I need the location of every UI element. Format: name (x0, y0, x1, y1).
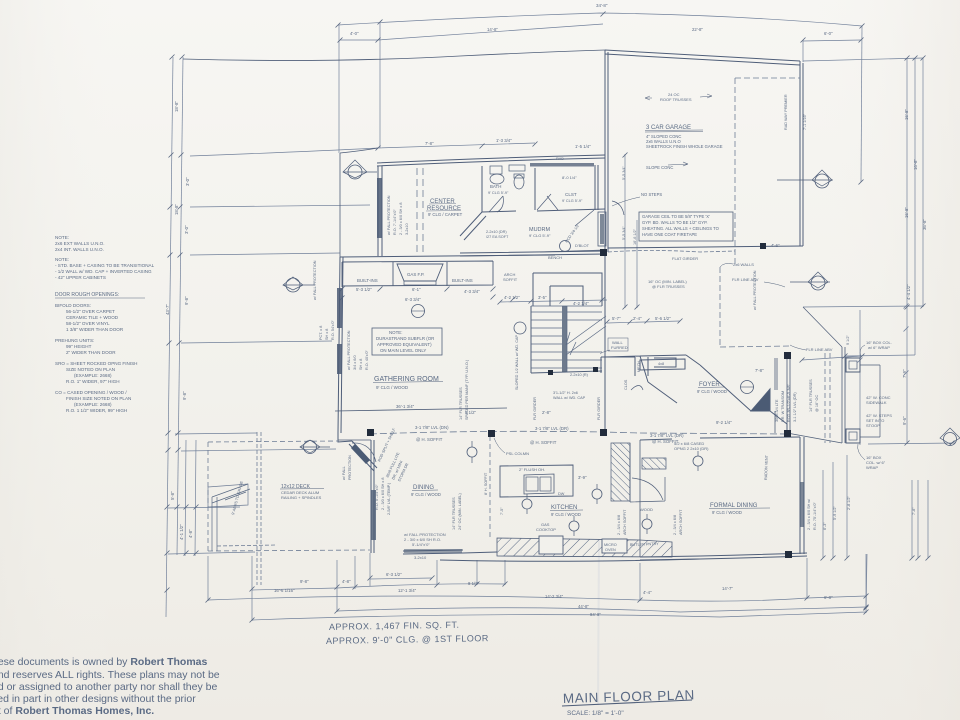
svg-text:4'-4 1/2": 4'-4 1/2" (906, 284, 911, 300)
svg-text:4'-6": 4'-6" (771, 243, 780, 248)
svg-text:R.O. 75'-1/4"x'0": R.O. 75'-1/4"x'0" (813, 502, 817, 530)
svg-text:BIFOLD DOORS:: BIFOLD DOORS: (55, 303, 91, 308)
svg-text:9'-2 1/4": 9'-2 1/4" (716, 420, 732, 425)
svg-text:CO = CASED OPENING / WOOD /: CO = CASED OPENING / WOOD / (55, 390, 127, 395)
svg-text:6'-8": 6'-8" (824, 595, 833, 600)
formal dining side dim verticals (823, 455, 847, 558)
svg-text:- 1/2 WALL w/ WD. CAP + INVERT: - 1/2 WALL w/ WD. CAP + INVERTED CASING (55, 269, 152, 274)
svg-text:5'-1/4"x'0": 5'-1/4"x'0" (412, 542, 430, 547)
left branch y=207 (190, 205, 370, 207)
svg-text:9' CLG / WOOD: 9' CLG / WOOD (697, 389, 727, 394)
extension line x=339 (338, 25, 340, 153)
svg-text:ARCH SOFFIT: ARCH SOFFIT (623, 509, 627, 535)
svg-text:6'-3": 6'-3" (823, 522, 827, 530)
title underline (562, 700, 692, 706)
svg-text:SH x 8: SH x 8 (359, 359, 363, 370)
svg-text:1 3/8" WIDER THAN DOOR: 1 3/8" WIDER THAN DOOR (66, 327, 124, 332)
left outer dimension line (166, 57, 173, 617)
svg-text:w/ FALL PROTECTION: w/ FALL PROTECTION (313, 260, 317, 300)
gathering lamp arrows (472, 441, 698, 536)
mech room walls (601, 357, 676, 376)
svg-text:18'-8": 18'-8" (174, 101, 179, 112)
svg-text:DW: DW (558, 492, 565, 496)
bottom-left extra dim verticals (185, 440, 196, 556)
svg-text:2" WIDER THAN DOOR: 2" WIDER THAN DOOR (66, 350, 116, 355)
foyer dim line y=322 (607, 321, 680, 323)
stair center rail dark strip (562, 306, 567, 372)
svg-text:9'-8": 9'-8" (184, 296, 189, 305)
foyer angled door wall (648, 355, 700, 403)
closet door swing (537, 194, 558, 210)
svg-text:2-5/8" LVL (TEMP.): 2-5/8" LVL (TEMP.) (387, 482, 391, 515)
svg-text:SHEETROCK FINISH WHOLE GARAGE: SHEETROCK FINISH WHOLE GARAGE (646, 144, 723, 149)
bath sink oval (490, 174, 504, 184)
left branch y=450 (181, 449, 336, 451)
svg-text:3-1 1/2" LVL (DR): 3-1 1/2" LVL (DR) (793, 392, 797, 422)
svg-text:3/4 x 6/0: 3/4 x 6/0 (353, 355, 357, 370)
svg-text:ARCH SOFFIT: ARCH SOFFIT (679, 509, 683, 535)
sink basin left (526, 477, 538, 491)
dining left exterior wall (371, 440, 374, 553)
floor-line-above dashed lower (720, 267, 790, 347)
porch edge lines right of foyer (842, 347, 845, 443)
stair up arrows diagonal (566, 316, 606, 355)
left wing top exterior wall (377, 155, 605, 166)
svg-text:2x6 EXT WALLS U.N.O.: 2x6 EXT WALLS U.N.O. (55, 241, 105, 246)
svg-text:14" FLR TRUSSES: 14" FLR TRUSSES (459, 387, 463, 420)
svg-text:6'-0": 6'-0" (824, 31, 833, 36)
svg-text:2'-8": 2'-8" (542, 410, 551, 415)
garage right wall extension up (802, 40, 804, 62)
svg-text:@ H. SOFFIT: @ H. SOFFIT (416, 437, 443, 442)
top sub dimension line 4'-0"/14'-8" (340, 24, 603, 40)
svg-text:w/ FALL PROTECTION: w/ FALL PROTECTION (753, 270, 757, 310)
svg-text:WOOD: WOOD (640, 507, 653, 512)
porch dim line y=358 (802, 356, 862, 360)
foyer top wall (605, 355, 686, 382)
svg-text:8 1/2": 8 1/2" (468, 581, 480, 586)
window formal dining right wall (800, 482, 804, 527)
svg-text:@ H. SOFFIT: @ H. SOFFIT (530, 440, 557, 445)
formal dining lamp (693, 456, 703, 466)
svg-text:9' CLG / WOOD: 9' CLG / WOOD (712, 510, 742, 515)
svg-text:BATH: BATH (490, 184, 501, 189)
svg-text:12'-1 3/4": 12'-1 3/4" (398, 588, 417, 593)
svg-text:DURASTRAND SUBFLR (OR: DURASTRAND SUBFLR (OR (376, 336, 434, 341)
window center resource left wall (377, 178, 382, 238)
svg-text:7'-9": 7'-9" (902, 369, 907, 378)
svg-text:14'-7": 14'-7" (722, 586, 733, 591)
formal dining top wall (640, 437, 800, 440)
gas fireplace trapezoid (397, 264, 443, 281)
extension from top wall to x=340 (340, 148, 378, 153)
svg-text:3'-5": 3'-5" (538, 295, 547, 300)
section marker below garage (790, 272, 830, 288)
svg-text:PREHUNG UNITS:: PREHUNG UNITS: (55, 338, 94, 343)
stair newels (548, 370, 553, 375)
svg-text:@ FLR TRUSSES: @ FLR TRUSSES (652, 284, 685, 289)
mud door diag (575, 210, 594, 226)
svg-text:FURRED: FURRED (611, 345, 628, 350)
svg-text:GYP. BD. WALLS TO BE 1/2" GYP: GYP. BD. WALLS TO BE 1/2" GYP. (642, 220, 708, 225)
svg-text:MECH: MECH (637, 361, 641, 372)
svg-text:3-1 7/8" LVL (DR): 3-1 7/8" LVL (DR) (650, 433, 684, 438)
svg-text:3'1-1/2" H. 2x6: 3'1-1/2" H. 2x6 (553, 391, 578, 395)
deck posts (212, 497, 217, 551)
stoop steps (860, 365, 880, 437)
kitchen bottom exterior wall (440, 552, 700, 561)
svg-text:24" OC (MIN. LABEL): 24" OC (MIN. LABEL) (458, 492, 462, 530)
extension line garage corner to right dims (803, 58, 923, 61)
section marker built-ins circle (412, 305, 425, 318)
section marker right edge (940, 428, 960, 444)
deck dashed lower rail (217, 545, 277, 546)
svg-text:R.O. 1 1/2" WIDER, 99" HIGH: R.O. 1 1/2" WIDER, 99" HIGH (66, 408, 127, 413)
svg-text:- 42" UPPER CABINETS: - 42" UPPER CABINETS (55, 275, 106, 280)
svg-text:RAD WAY PREMIER: RAD WAY PREMIER (784, 94, 788, 130)
svg-text:SRO = SHEET ROCKED OPNG FINISH: SRO = SHEET ROCKED OPNG FINISH (55, 361, 138, 366)
svg-text:R.O. 5'-1/4"x'0": R.O. 5'-1/4"x'0" (375, 484, 379, 510)
garage top wall (605, 50, 800, 65)
kitchen lamp circle 1 (467, 447, 477, 457)
svg-text:SLOPED 1/2 WALL w/ WD. CAP: SLOPED 1/2 WALL w/ WD. CAP (515, 335, 519, 390)
svg-text:3'-0": 3'-0" (184, 225, 189, 234)
svg-text:14" FLR TRUSSES: 14" FLR TRUSSES (809, 379, 813, 412)
svg-text:CLOS: CLOS (624, 379, 628, 390)
junction mud corner (601, 249, 607, 255)
svg-text:14'-8": 14'-8" (487, 27, 498, 32)
svg-text:RHD: RHD (556, 157, 564, 161)
bay corner wall (338, 433, 352, 442)
svg-text:2 - 3/4 x 6/8: 2 - 3/4 x 6/8 (617, 515, 621, 535)
right dim vertical x=907 (906, 58, 908, 443)
svg-text:BUILT-INS: BUILT-INS (452, 278, 473, 283)
svg-text:14'-2 3/4": 14'-2 3/4" (545, 594, 564, 599)
garage bottom wall (608, 246, 803, 248)
svg-text:1'-3 3/4": 1'-3 3/4" (496, 138, 512, 143)
svg-text:NOTE:: NOTE: (55, 257, 69, 262)
wood closet lamp (642, 519, 652, 529)
garage-mudroom door arc (612, 201, 624, 215)
svg-text:NO STEPS: NO STEPS (641, 192, 662, 197)
svg-text:9' CLG 5'-9": 9' CLG 5'-9" (529, 233, 551, 238)
svg-text:36'-8": 36'-8" (922, 219, 927, 230)
junction post psl column (488, 430, 495, 437)
svg-text:sed in part in other designs w: sed in part in other designs without the… (0, 693, 196, 705)
porch top line (803, 307, 842, 347)
dim segment y=578 (370, 578, 432, 579)
deck step diagonals (212, 484, 250, 503)
svg-text:9'-8": 9'-8" (182, 391, 187, 400)
bottom dim line A (337, 584, 505, 588)
gathering room left wall (338, 257, 343, 433)
front wall lower to corner (786, 424, 788, 433)
svg-text:/27 EA SOFT: /27 EA SOFT (486, 235, 509, 239)
svg-text:34'-8": 34'-8" (596, 3, 608, 8)
left inner dimension line (177, 57, 183, 555)
svg-text:16'-8": 16'-8" (913, 159, 918, 170)
hall closet door arc (631, 386, 643, 391)
bay door leaf (351, 444, 370, 464)
svg-text:1'-5 1/4": 1'-5 1/4" (575, 144, 591, 149)
kitchen counter hatch band (497, 538, 672, 557)
svg-text:SH x 8: SH x 8 (325, 329, 329, 340)
mud bench (540, 250, 605, 252)
svg-text:OPNG 2 2x10 (DR): OPNG 2 2x10 (DR) (674, 446, 709, 451)
stair right flight treads (567, 312, 602, 368)
floor-line-above dashed rect in garage (735, 78, 800, 267)
garage side dim vertical x=625 (624, 154, 626, 308)
svg-text:@ 16" OC: @ 16" OC (815, 395, 819, 412)
junction post formal dining (785, 551, 792, 558)
svg-text:GARAGE CEIL TO BE 5/8" TYPE 'X: GARAGE CEIL TO BE 5/8" TYPE 'X' (642, 214, 710, 219)
foyer closet shelves (640, 359, 685, 370)
kitchen soffit dashed (489, 436, 491, 540)
svg-text:STOOP: STOOP (866, 423, 880, 428)
svg-text:2" FLUSH OH.: 2" FLUSH OH. (519, 467, 545, 472)
svg-text:3-1 7/8" LVL (DR): 3-1 7/8" LVL (DR) (535, 426, 569, 431)
svg-text:5'-5 3/4": 5'-5 3/4" (622, 225, 626, 240)
svg-text:4'-0": 4'-0" (350, 31, 359, 36)
pantry upper hatch (642, 458, 666, 469)
svg-text:9' CLG / WOOD: 9' CLG / WOOD (376, 385, 409, 390)
svg-text:@ H. SOFFIT: @ H. SOFFIT (652, 439, 679, 444)
window dining left wall (371, 490, 376, 540)
svg-text:DOOR ROUGH OPENINGS:: DOOR ROUGH OPENINGS: (55, 292, 119, 298)
svg-text:NOTE:: NOTE: (389, 330, 402, 335)
extension x=370 below dining (369, 553, 371, 586)
micro oven box (602, 539, 627, 553)
svg-text:8' H. SOFFIT: 8' H. SOFFIT (484, 472, 488, 495)
svg-text:6'-3 3/4": 6'-3 3/4" (405, 297, 421, 302)
left branch y=343 (181, 341, 332, 343)
bay angled wall (349, 441, 377, 471)
svg-text:FLAT GIRDER: FLAT GIRDER (672, 256, 698, 261)
kitchen/closet wall x=630 (629, 443, 631, 502)
svg-text:58-1/2" OVER VINYL: 58-1/2" OVER VINYL (66, 321, 110, 326)
LVL beam dashed gathering/dining (370, 431, 790, 434)
kitchen lamp circle 4 (592, 489, 602, 499)
svg-text:4'-8": 4'-8" (188, 529, 193, 538)
svg-text:R.O. 40'x'0": R.O. 40'x'0" (365, 349, 369, 370)
foyer right wall x=787 (786, 357, 788, 433)
svg-text:BENCH: BENCH (548, 255, 562, 260)
svg-text:8'-0 1/4": 8'-0 1/4" (562, 175, 577, 180)
built-in divider left (392, 262, 394, 286)
svg-text:9' CLG 5'-9": 9' CLG 5'-9" (488, 191, 509, 195)
gathering/dining bottom wall y=410 (335, 408, 507, 411)
porch bottom walk (787, 433, 842, 443)
svg-text:56-1/2" OVER CARPET: 56-1/2" OVER CARPET (66, 309, 115, 314)
svg-text:WRAP: WRAP (866, 465, 878, 470)
mudroom left angled wall (460, 212, 486, 240)
svg-text:7'-8": 7'-8" (755, 368, 764, 373)
svg-text:DR. W TRANSOM: DR. W TRANSOM (781, 391, 785, 422)
svg-text:RAILING + SPINDLES: RAILING + SPINDLES (281, 495, 322, 500)
svg-text:4'-2 1/4": 4'-2 1/4" (573, 301, 589, 306)
stair left wall (530, 306, 532, 373)
svg-text:99" HEIGHT: 99" HEIGHT (66, 344, 92, 349)
box column lower inner (849, 432, 857, 440)
left exterior wall x=340 upper (339, 153, 341, 257)
bay door swing arc (352, 443, 376, 462)
svg-text:FLR LINE ABV: FLR LINE ABV (806, 347, 833, 352)
svg-text:3-1 7/8" LVL (DN): 3-1 7/8" LVL (DN) (415, 425, 449, 430)
right dim vertical x=915 (914, 58, 916, 355)
closet right wall (595, 165, 598, 210)
svg-text:7'-8": 7'-8" (425, 141, 434, 146)
svg-text:5'-5 3/4": 5'-5 3/4" (622, 165, 626, 180)
svg-text:w/ FALL PROTECTION: w/ FALL PROTECTION (387, 195, 391, 235)
bottom-left branch y=553 (168, 552, 255, 554)
dining-deck wall step (338, 439, 371, 441)
svg-text:SHEATING. ALL WALLS + CEILINGS: SHEATING. ALL WALLS + CEILINGS TO (642, 226, 720, 231)
svg-text:5'-9 1/2": 5'-9 1/2" (833, 505, 837, 520)
svg-text:CLST: CLST (565, 192, 577, 197)
formal dining bottom wall (640, 553, 807, 560)
window left wing wall upper (337, 288, 342, 328)
hall wall x=605 mid (604, 252, 606, 436)
built-in divider right (446, 262, 448, 286)
svg-text:ed or assigned to another part: ed or assigned to another party nor shal… (0, 681, 217, 693)
svg-text:2x6 WALLS: 2x6 WALLS (733, 262, 754, 267)
svg-text:SIDEWALK: SIDEWALK (866, 400, 887, 405)
svg-text:9' CLG / WOOD: 9' CLG / WOOD (551, 512, 581, 517)
locker box (598, 212, 606, 246)
svg-text:9' CLG 5'-9": 9' CLG 5'-9" (562, 199, 583, 203)
fold crease (598, 540, 599, 705)
svg-text:7'-1 1/16": 7'-1 1/16" (803, 113, 807, 130)
svg-text:ON MAIN LEVEL ONLY: ON MAIN LEVEL ONLY (380, 348, 426, 353)
svg-text:16'-6 1/16": 16'-6 1/16" (274, 588, 295, 593)
section marker diamond 1/B top-left wing (343, 160, 377, 178)
svg-text:7'-8": 7'-8" (912, 507, 916, 515)
junction post foyer right bottom (784, 430, 791, 437)
bath/closet bottom wall (482, 209, 605, 212)
box column upper inner (849, 361, 857, 369)
mudroom bottom wall (460, 251, 605, 256)
section marker bay left (300, 440, 330, 453)
svg-text:PSL COLMN: PSL COLMN (506, 451, 529, 456)
svg-text:R.O. 7'-1/4"x'0": R.O. 7'-1/4"x'0" (393, 209, 397, 235)
svg-text:SIZE NOTED ON PLAN: SIZE NOTED ON PLAN (66, 367, 115, 372)
svg-text:w/ FALL PROTECTION: w/ FALL PROTECTION (347, 330, 351, 370)
garage side dim vertical x=637 (636, 220, 638, 308)
bottom dim line C 44'-8" (337, 607, 866, 612)
svg-text:3'-9": 3'-9" (578, 475, 587, 480)
range square in counter (539, 536, 563, 554)
svg-text:3'-0": 3'-0" (185, 177, 190, 186)
island sink box (524, 474, 554, 494)
bottom-left branch y=507 (168, 507, 240, 508)
center resource / built-ins bottom wall (340, 255, 555, 257)
svg-text:14" FLR TRUSSES: 14" FLR TRUSSES (452, 497, 456, 530)
dim vertical x=866 lower (865, 554, 867, 609)
garage right wall (800, 61, 803, 246)
bath door swing (489, 196, 503, 212)
sink basin right (540, 477, 551, 491)
svg-text:R.O. 54'x'0": R.O. 54'x'0" (331, 319, 335, 340)
kitchen lamp circle 2 (522, 499, 532, 509)
svg-text:2x4 INT. WALLS U.N.O.: 2x4 INT. WALLS U.N.O. (55, 247, 104, 252)
svg-text:4'-3 3/4": 4'-3 3/4" (464, 289, 480, 294)
svg-text:2 - 3/4 x 6/0 SH w/: 2 - 3/4 x 6/0 SH w/ (807, 498, 811, 530)
svg-text:2 - 3/0 x 6/0 SH x 8: 2 - 3/0 x 6/0 SH x 8 (399, 203, 403, 236)
svg-text:PROTECTION: PROTECTION (348, 455, 352, 480)
svg-text:18'-8": 18'-8" (174, 204, 179, 215)
svg-text:5'-6 1/2": 5'-6 1/2" (655, 316, 671, 321)
extension line x=862 garage right (861, 26, 862, 182)
svg-text:(EXAMPLE: 2668): (EXAMPLE: 2668) (74, 402, 112, 407)
svg-text:16'-6 1/2": 16'-6 1/2" (633, 228, 637, 245)
dimension tick marks (165, 12, 955, 623)
junction post hall upper (600, 249, 607, 256)
svg-text:6'-1": 6'-1" (412, 287, 421, 292)
stair hall bottom wall (531, 371, 602, 373)
right branch y=443 to edge marker (868, 443, 955, 444)
right branch y=355 (845, 355, 915, 356)
svg-text:2 - 3/0 x 6/0 SH x 8: 2 - 3/0 x 6/0 SH x 8 (381, 478, 385, 511)
foyer circle marker (741, 381, 754, 394)
svg-text:9 1/2": 9 1/2" (846, 335, 850, 345)
top dimension line 34'-8" (338, 13, 862, 26)
formal dining right wall (800, 437, 804, 554)
svg-text:SPACED PER MANF (TYP. U.N.O.): SPACED PER MANF (TYP. U.N.O.) (465, 359, 469, 420)
box column upper (846, 358, 860, 372)
svg-text:FLR GIRDER: FLR GIRDER (597, 397, 601, 420)
svg-text:4'-1 1/2": 4'-1 1/2" (179, 524, 184, 540)
svg-text:43'-7": 43'-7" (165, 304, 170, 315)
svg-text:SLOPE CONC: SLOPE CONC (646, 165, 673, 170)
center resource dashed cabinets (417, 168, 423, 253)
extension line x=380 (379, 22, 381, 148)
svg-text:5'-8": 5'-8" (170, 491, 175, 500)
bath med cabinet (490, 166, 502, 174)
svg-text:CERAMIC TILE + WOOD: CERAMIC TILE + WOOD (66, 315, 119, 320)
closet left wall (534, 168, 536, 210)
svg-text:36'-1 3/4": 36'-1 3/4" (396, 404, 415, 409)
svg-text:ROOF TRUSSES: ROOF TRUSSES (660, 97, 692, 102)
svg-text:3-2x10: 3-2x10 (414, 555, 427, 560)
svg-text:4x8: 4x8 (658, 362, 664, 366)
pantry chase hatch strip (611, 443, 630, 501)
svg-text:FINISH SIZE NOTED ON PLAN: FINISH SIZE NOTED ON PLAN (66, 396, 131, 401)
left branch y=255 (190, 253, 340, 255)
svg-text:9' CLG / CARPET: 9' CLG / CARPET (428, 212, 463, 217)
stair upper landing walls (533, 273, 602, 306)
wire top exterior line to garage (183, 50, 605, 60)
front wall verticals (775, 357, 790, 433)
svg-text:APPROVED EQUIVALENT): APPROVED EQUIVALENT) (377, 342, 432, 347)
garage ceiling note box (639, 212, 733, 241)
deck dashed inner (257, 432, 261, 585)
svg-text:SCALE: 1/8" = 1'-0": SCALE: 1/8" = 1'-0" (567, 710, 624, 717)
porch outer dim vertical x=860 (859, 310, 861, 445)
locker dark strip (600, 214, 604, 244)
svg-text:- STD. BASE + CASING TO BE TRA: - STD. BASE + CASING TO BE TRANSITIONAL (55, 263, 155, 268)
center resource left wall (378, 166, 382, 256)
svg-text:hese documents is owned by Rob: hese documents is owned by Robert Thomas (0, 656, 208, 668)
deck dashed outline (208, 441, 370, 553)
built-ins row outline (342, 261, 493, 287)
window left wing wall lower (337, 344, 342, 374)
svg-text:and reserves ALL rights. These: and reserves ALL rights. These plans may… (0, 669, 220, 681)
front entry wall (700, 365, 787, 424)
svg-text:22'-8": 22'-8" (692, 27, 703, 32)
svg-text:GAS F.P.: GAS F.P. (407, 272, 425, 277)
bottom dim line A-left (252, 588, 337, 590)
svg-text:5'-3 1/2": 5'-3 1/2" (356, 287, 372, 292)
